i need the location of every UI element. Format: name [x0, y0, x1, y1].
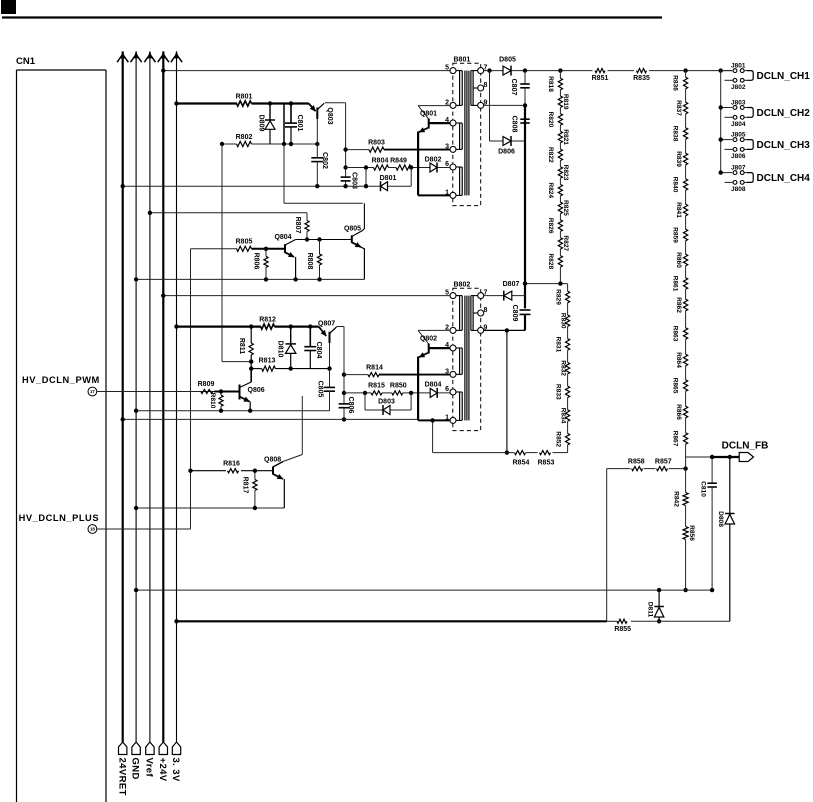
svg-text:R834: R834 [560, 408, 567, 424]
svg-text:D807: D807 [503, 281, 520, 288]
svg-text:R835: R835 [633, 75, 650, 82]
svg-text:R860: R860 [675, 252, 682, 268]
svg-text:R831: R831 [554, 337, 561, 353]
svg-text:R825: R825 [562, 200, 569, 216]
svg-text:D801: D801 [380, 175, 397, 182]
svg-text:R807: R807 [294, 217, 301, 234]
svg-text:R861: R861 [671, 276, 678, 292]
svg-text:R808: R808 [306, 253, 313, 270]
svg-text:D809: D809 [257, 115, 264, 132]
svg-text:R806: R806 [252, 253, 259, 270]
svg-text:24VRET: 24VRET [116, 758, 127, 796]
svg-text:B801: B801 [454, 56, 471, 63]
svg-text:CN1: CN1 [16, 56, 36, 67]
svg-text:R857: R857 [655, 458, 672, 465]
svg-text:R830: R830 [560, 313, 567, 329]
svg-text:8: 8 [484, 82, 488, 89]
svg-text:Q808: Q808 [264, 456, 281, 463]
svg-text:R815: R815 [368, 382, 385, 389]
svg-text:C808: C808 [510, 116, 517, 133]
svg-text:DCLN_FB: DCLN_FB [722, 440, 769, 451]
svg-text:R801: R801 [236, 93, 253, 100]
svg-text:R816: R816 [223, 460, 240, 467]
svg-text:R809: R809 [198, 381, 215, 388]
svg-text:Q804: Q804 [274, 234, 291, 241]
svg-text:R832: R832 [560, 360, 567, 376]
svg-text:D811: D811 [647, 602, 654, 618]
svg-text:C804: C804 [315, 342, 322, 359]
svg-text:R812: R812 [259, 317, 276, 324]
svg-text:DCLN_CH4: DCLN_CH4 [757, 173, 811, 184]
svg-text:Q807: Q807 [318, 321, 335, 328]
svg-text:R856: R856 [688, 525, 695, 541]
svg-text:Q806: Q806 [248, 387, 265, 394]
svg-text:R813: R813 [259, 357, 276, 364]
svg-text:C801: C801 [296, 115, 303, 132]
svg-text:D808: D808 [717, 511, 724, 527]
svg-text:R803: R803 [368, 139, 385, 146]
svg-text:Q801: Q801 [420, 110, 437, 117]
svg-text:R826: R826 [547, 218, 554, 234]
svg-text:R851: R851 [592, 75, 609, 82]
svg-text:R802: R802 [236, 134, 253, 141]
svg-text:C802: C802 [321, 152, 328, 169]
svg-text:R839: R839 [675, 151, 682, 167]
svg-text:J803: J803 [731, 99, 746, 106]
svg-text:R833: R833 [554, 384, 561, 400]
svg-text:R850: R850 [390, 382, 407, 389]
svg-text:R840: R840 [671, 177, 678, 193]
svg-text:R865: R865 [671, 378, 678, 394]
svg-text:J804: J804 [731, 121, 746, 128]
svg-text:Q802: Q802 [420, 336, 437, 343]
svg-text:C807: C807 [510, 79, 517, 96]
svg-text:R855: R855 [614, 626, 631, 633]
svg-text:C809: C809 [511, 305, 518, 322]
svg-text:R863: R863 [671, 326, 678, 342]
svg-text:D802: D802 [425, 156, 442, 163]
svg-text:J802: J802 [731, 84, 746, 91]
svg-text:J801: J801 [731, 62, 746, 69]
svg-text:R837: R837 [675, 100, 682, 116]
svg-text:6: 6 [445, 386, 449, 393]
svg-text:R866: R866 [675, 404, 682, 420]
svg-text:R820: R820 [547, 112, 554, 128]
svg-text:R817: R817 [241, 477, 248, 494]
svg-text:R849: R849 [390, 157, 407, 164]
svg-text:HV_DCLN_PLUS: HV_DCLN_PLUS [19, 513, 99, 523]
svg-text:R828: R828 [547, 253, 554, 269]
svg-text:R821: R821 [562, 129, 569, 145]
svg-text:D810: D810 [276, 341, 283, 358]
svg-text:Q805: Q805 [344, 226, 361, 233]
svg-text:R864: R864 [675, 352, 682, 368]
svg-text:R805: R805 [236, 238, 253, 245]
svg-text:R854: R854 [513, 460, 530, 467]
svg-text:B802: B802 [454, 281, 471, 288]
svg-text:C806: C806 [347, 397, 354, 414]
svg-text:17: 17 [90, 389, 95, 394]
svg-text:R858: R858 [628, 458, 645, 465]
svg-text:D805: D805 [499, 57, 516, 64]
svg-text:R829: R829 [554, 289, 561, 305]
svg-text:R842: R842 [673, 491, 680, 507]
svg-text:D804: D804 [425, 382, 442, 389]
svg-text:J808: J808 [731, 186, 746, 193]
svg-text:R811: R811 [238, 338, 245, 354]
svg-text:DCLN_CH2: DCLN_CH2 [757, 108, 811, 119]
svg-text:C805: C805 [316, 381, 323, 398]
svg-text:R819: R819 [562, 94, 569, 110]
svg-text:3. 3V: 3. 3V [170, 758, 181, 782]
svg-text:Vref: Vref [144, 758, 155, 778]
svg-text:8: 8 [484, 307, 488, 314]
svg-text:R824: R824 [547, 182, 554, 198]
svg-text:18: 18 [90, 527, 95, 532]
svg-text:R841: R841 [675, 202, 682, 218]
svg-text:C810: C810 [700, 481, 707, 497]
svg-text:GND: GND [130, 758, 141, 780]
svg-text:DCLN_CH3: DCLN_CH3 [757, 140, 811, 151]
svg-text:R867: R867 [671, 431, 678, 447]
svg-text:J805: J805 [731, 131, 746, 138]
svg-text:R814: R814 [366, 364, 383, 371]
svg-text:J807: J807 [731, 164, 746, 171]
svg-text:R804: R804 [372, 157, 389, 164]
svg-text:R852: R852 [554, 431, 561, 447]
svg-text:R810: R810 [209, 393, 216, 409]
svg-text:R862: R862 [675, 297, 682, 313]
svg-text:+24V: +24V [157, 758, 168, 782]
svg-text:R836: R836 [671, 75, 678, 91]
svg-text:J806: J806 [731, 153, 746, 160]
svg-text:HV_DCLN_PWM: HV_DCLN_PWM [22, 375, 100, 385]
svg-text:R823: R823 [562, 165, 569, 181]
svg-text:R838: R838 [671, 126, 678, 142]
svg-text:R827: R827 [562, 235, 569, 251]
svg-text:R818: R818 [547, 76, 554, 92]
svg-text:R859: R859 [671, 227, 678, 243]
svg-text:D806: D806 [498, 149, 515, 156]
svg-text:R822: R822 [547, 147, 554, 163]
svg-text:D803: D803 [378, 399, 395, 406]
svg-text:Q803: Q803 [326, 107, 333, 124]
svg-text:R853: R853 [538, 460, 555, 467]
svg-text:DCLN_CH1: DCLN_CH1 [757, 71, 811, 82]
